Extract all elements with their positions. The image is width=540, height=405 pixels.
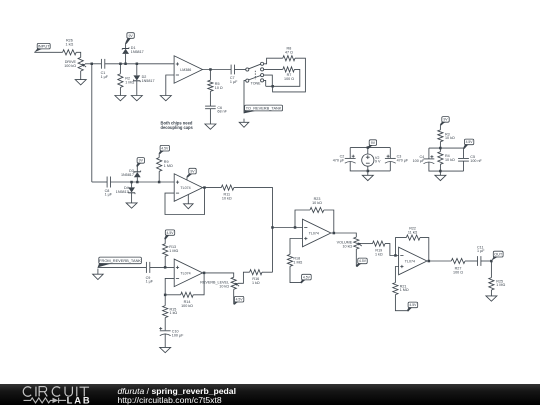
svg-text:1 MΩ: 1 MΩ: [169, 249, 178, 253]
wire: [164, 295, 166, 306]
label TONE: [251, 82, 262, 86]
resistor R2: [118, 74, 123, 88]
svg-text:100 kΩ: 100 kΩ: [64, 64, 76, 68]
svg-text:100 Ω: 100 Ω: [453, 270, 463, 274]
wire: [465, 260, 478, 262]
flag 4.5V at R21: [407, 302, 418, 311]
svg-text:100 Ω: 100 Ω: [284, 77, 294, 81]
resistor R25: [489, 278, 494, 290]
op-amp U1 LM386: [174, 56, 202, 83]
resistor R16: [250, 270, 262, 275]
svg-text:TO_REVERB_TANK: TO_REVERB_TANK: [246, 105, 282, 110]
wire: [92, 63, 101, 65]
wire: [80, 71, 82, 80]
svg-text:100 µF: 100 µF: [413, 159, 425, 163]
label R4: [445, 154, 455, 162]
wire: [119, 64, 121, 74]
capacitor C8: [107, 177, 110, 188]
wire: [481, 260, 492, 262]
node R2 tap: [119, 63, 122, 66]
resistor R23: [310, 207, 324, 212]
wire: [235, 69, 246, 71]
footer bar: [0, 384, 540, 405]
capacitor C6: [205, 106, 216, 109]
wire: [136, 64, 138, 76]
node U3 out: [333, 232, 336, 235]
svg-text:9 V: 9 V: [375, 160, 381, 164]
wire: [428, 148, 430, 159]
node drive-wiper: [91, 63, 94, 66]
svg-text:4.5V: 4.5V: [161, 147, 169, 151]
node fb U2B: [164, 294, 167, 297]
op-amp U2 TL074: [174, 174, 202, 202]
svg-text:1 kΩ: 1 kΩ: [66, 42, 74, 46]
node D1 tap: [124, 63, 127, 66]
wire: [367, 171, 369, 175]
svg-text:9V: 9V: [128, 34, 133, 38]
node U1 out: [209, 68, 212, 71]
flag 9V at U2: [187, 168, 197, 177]
label V2: [375, 156, 381, 164]
svg-text:4.5V: 4.5V: [359, 259, 367, 263]
label R19: [375, 249, 383, 257]
node R9 tap: [158, 181, 161, 184]
wire: [165, 294, 181, 296]
label REVERB_LEVEL: [200, 281, 229, 289]
label R21: [400, 284, 409, 292]
svg-text:1 MΩ: 1 MΩ: [293, 261, 302, 265]
wire: [238, 272, 250, 283]
svg-text:1N5817: 1N5817: [116, 190, 129, 194]
svg-text:4.5V: 4.5V: [466, 140, 474, 144]
wire: [264, 58, 283, 64]
capacitor C11: [478, 256, 481, 266]
wire: [266, 69, 300, 86]
flag 9V at V2: [367, 140, 376, 149]
wire: [385, 244, 399, 256]
ground: [184, 204, 194, 209]
wire: [136, 166, 138, 172]
node summing: [271, 226, 274, 229]
label R27: [453, 266, 463, 274]
wire: [429, 147, 464, 149]
label R9: [164, 160, 173, 168]
wire: [439, 142, 441, 148]
wire: [490, 290, 492, 296]
svg-text:LM386: LM386: [180, 68, 191, 72]
node tone net: [271, 85, 274, 88]
svg-text:1 MΩ: 1 MΩ: [125, 81, 134, 85]
op-amp U4 TL074: [399, 247, 427, 275]
label R14: [181, 300, 193, 308]
logo resistor-diode symbol: [24, 398, 67, 403]
wire: [244, 81, 246, 114]
wire: [131, 182, 133, 187]
label C9: [146, 276, 154, 284]
wire: [158, 171, 160, 182]
wire: [439, 125, 441, 130]
voltage source V2: [362, 154, 374, 166]
label D2: [142, 75, 155, 83]
wire: [427, 260, 451, 262]
node R13 tap: [164, 266, 167, 269]
wire: [439, 171, 441, 175]
wire: [203, 273, 234, 277]
ground: [435, 175, 446, 180]
node U2B out: [203, 272, 206, 275]
resistor R18: [287, 254, 292, 266]
resistor R26: [63, 50, 77, 55]
capacitor C7: [231, 65, 234, 75]
svg-text:4.5V: 4.5V: [236, 298, 244, 302]
note decoupling: [161, 121, 194, 131]
wire: [262, 271, 273, 273]
resistor R14: [181, 292, 194, 297]
resistor R7: [283, 67, 295, 72]
label C6: [217, 106, 227, 114]
ground: [205, 124, 216, 129]
wire: [150, 266, 174, 268]
wire: [136, 177, 138, 182]
resistor R11: [221, 185, 234, 190]
wire: [193, 273, 204, 295]
ground: [126, 203, 137, 208]
resistor R15: [163, 306, 168, 318]
ground: [239, 119, 249, 128]
label R18: [293, 257, 302, 265]
wire: [273, 227, 303, 229]
svg-text:10 Ω: 10 Ω: [215, 86, 223, 90]
wire: [209, 91, 211, 106]
wire: [273, 58, 306, 92]
wire: [367, 166, 369, 171]
wire: [34, 51, 62, 53]
resistor R8: [283, 56, 295, 61]
label R11: [222, 192, 232, 200]
resistor R19: [373, 241, 386, 246]
switch TONE pole B: [246, 76, 261, 83]
flag 4.5V at divider: [463, 139, 474, 149]
capacitor C1: [101, 59, 104, 69]
label D1: [131, 46, 144, 54]
ground: [93, 269, 104, 280]
svg-text:1 µF: 1 µF: [477, 249, 485, 253]
svg-text:LAB: LAB: [67, 395, 92, 405]
wire: [349, 148, 351, 159]
flag FROM_REVERB_TANK: [98, 257, 142, 267]
svg-text:68 nF: 68 nF: [217, 110, 227, 114]
svg-text:10 kΩ: 10 kΩ: [342, 245, 352, 249]
svg-text:OUT: OUT: [494, 252, 503, 257]
node U4 out: [428, 260, 431, 263]
svg-text:4.5V: 4.5V: [409, 303, 417, 307]
svg-text:10 kΩ: 10 kΩ: [219, 285, 229, 289]
wire: [136, 81, 138, 96]
capacitor C2 polarized: [345, 155, 356, 164]
node OUT: [490, 260, 493, 263]
capacitor C9: [146, 262, 149, 273]
label C3: [397, 154, 409, 162]
label R2: [125, 77, 134, 85]
svg-text:1 µF: 1 µF: [230, 80, 238, 84]
svg-text:47 Ω: 47 Ω: [285, 51, 293, 55]
wire: [395, 295, 407, 311]
svg-text:1N5817: 1N5817: [131, 50, 144, 54]
capacitor C4 polarized: [424, 155, 435, 164]
svg-text:11 kΩ: 11 kΩ: [408, 230, 418, 234]
ground: [362, 175, 373, 180]
flag INPUT: [34, 43, 50, 52]
diode D1: [122, 47, 129, 54]
power ground stub: [187, 195, 189, 204]
label C2: [333, 154, 345, 162]
label R16: [252, 277, 260, 285]
resistor R3: [438, 130, 443, 142]
node D2 tap: [136, 63, 139, 66]
ground: [131, 96, 142, 101]
svg-text:10 kΩ: 10 kΩ: [445, 136, 455, 140]
wire: [264, 75, 273, 86]
diode D2: [133, 75, 140, 82]
label R22: [408, 227, 418, 235]
label R7: [284, 73, 294, 81]
wire: [331, 233, 356, 237]
svg-text:1 MΩ: 1 MΩ: [496, 283, 505, 287]
wire: [119, 88, 121, 96]
label C11: [477, 245, 485, 253]
svg-text:9V: 9V: [371, 141, 376, 145]
svg-text:TL074: TL074: [180, 186, 190, 190]
svg-text:1 kΩ: 1 kΩ: [375, 252, 383, 256]
label C7: [230, 76, 238, 84]
svg-text:100 kΩ: 100 kΩ: [181, 304, 193, 308]
node U2 out: [203, 186, 206, 189]
svg-text:1N5817: 1N5817: [121, 173, 134, 177]
node 9V rail: [367, 146, 370, 149]
wire: [131, 193, 133, 203]
resistor R9: [157, 158, 162, 172]
logo CIRCUIT: [23, 387, 89, 397]
wire: [233, 289, 235, 304]
wire: [164, 318, 166, 331]
svg-text:1 µF: 1 µF: [105, 193, 113, 197]
flag 4.5V at R18: [300, 274, 311, 283]
node divider gnd: [439, 170, 442, 173]
capacitor C3 polarized: [385, 155, 396, 164]
op-amp U3 TL074: [303, 219, 331, 247]
switch TONE link: [254, 71, 256, 79]
wire: [290, 239, 303, 255]
wire: [203, 69, 232, 71]
wire: [389, 148, 391, 159]
label R26: [66, 39, 74, 47]
wire: [324, 210, 334, 233]
wire: [125, 54, 127, 64]
potentiometer VOLUME: [354, 237, 362, 249]
resistor R13: [163, 244, 168, 256]
svg-text:1 MΩ: 1 MΩ: [164, 164, 173, 168]
wire: [85, 63, 92, 65]
label R3: [445, 132, 455, 140]
wire: [439, 148, 441, 152]
svg-text:FROM_REVERB_TANK: FROM_REVERB_TANK: [99, 258, 141, 263]
ground: [115, 96, 126, 101]
svg-text:4.5V: 4.5V: [167, 231, 175, 235]
resistor R21: [393, 283, 398, 295]
wire: [234, 188, 273, 273]
wire: [367, 148, 369, 154]
label R15: [170, 307, 178, 315]
node 9V gnd: [367, 170, 370, 173]
svg-text:9V: 9V: [443, 118, 448, 122]
resistor R5: [208, 80, 213, 91]
label R23: [312, 197, 322, 205]
resistor R27: [451, 258, 465, 263]
wire: [125, 43, 127, 48]
wire: [92, 181, 107, 183]
label DRIVE: [64, 60, 76, 68]
wire: [164, 256, 166, 267]
flag OUT: [492, 251, 503, 260]
label C5: [470, 155, 482, 163]
wire: [395, 267, 398, 283]
wire: [355, 249, 357, 266]
svg-text:1 kΩ: 1 kΩ: [252, 281, 260, 285]
label C4: [413, 155, 425, 163]
capacitor C5: [458, 159, 469, 162]
switch TONE throws B: [261, 74, 264, 82]
svg-text:10 kΩ: 10 kΩ: [445, 158, 455, 162]
wire: [463, 161, 465, 171]
svg-text:470 µF: 470 µF: [333, 158, 345, 162]
wire feedback U2: [165, 188, 205, 215]
diode D4: [128, 187, 135, 194]
wire: [429, 162, 464, 171]
flag TO_REVERB_TANK: [244, 105, 283, 113]
svg-text:TL074: TL074: [405, 260, 415, 264]
label C8: [105, 189, 113, 197]
node R23 tap: [294, 226, 297, 229]
label D3: [121, 169, 134, 177]
svg-text:9V: 9V: [139, 159, 144, 163]
wire: [396, 238, 407, 256]
switch TONE pole A: [246, 64, 261, 71]
svg-text:9V: 9V: [190, 169, 195, 173]
svg-text:10 kΩ: 10 kΩ: [312, 201, 322, 205]
label D4: [116, 186, 129, 194]
wire: [264, 80, 266, 86]
wire: [158, 153, 160, 157]
wire: [350, 162, 390, 171]
flag 4.5V at REVERB_LEVEL: [233, 296, 243, 304]
potentiometer REVERB_LEVEL: [231, 277, 239, 289]
flag 9V at R3: [440, 117, 449, 126]
wire: [164, 334, 166, 348]
flag 4.5V at R13: [164, 230, 175, 240]
flag 4.5V at R9: [159, 145, 170, 154]
flag 9V at D1: [125, 33, 134, 44]
wire: [290, 266, 301, 282]
wire feedback U2B: [165, 278, 174, 294]
wire: [490, 261, 492, 278]
svg-text:1 MΩ: 1 MΩ: [400, 288, 409, 292]
wire: [439, 164, 441, 171]
label VOLUME: [337, 241, 353, 249]
node 4.5V rail: [439, 147, 442, 150]
flag 4.5V at VOLUME: [356, 258, 367, 267]
potentiometer DRIVE: [78, 57, 86, 71]
ground: [160, 96, 171, 101]
svg-text:100 µF: 100 µF: [172, 334, 184, 338]
ground: [75, 80, 86, 85]
diode D3: [134, 171, 141, 178]
wire: [209, 70, 211, 81]
resistor R22: [406, 235, 420, 240]
svg-text:4.5V: 4.5V: [303, 275, 311, 279]
wire: [111, 181, 175, 183]
power pin stub: [186, 177, 188, 181]
wire: [295, 210, 310, 228]
svg-text:decoupling caps: decoupling caps: [161, 125, 194, 130]
svg-text:10 kΩ: 10 kΩ: [222, 196, 232, 200]
svg-text:1N5817: 1N5817: [142, 79, 155, 83]
op-amp U2B TL074: [174, 259, 202, 287]
svg-text:TONE: TONE: [251, 82, 262, 86]
switch TONE throws A: [261, 62, 264, 71]
svg-text:100 nF: 100 nF: [470, 159, 482, 163]
wire: [164, 239, 166, 244]
label R8: [285, 47, 293, 55]
svg-text:INPUT: INPUT: [38, 44, 51, 49]
wire: [91, 64, 93, 182]
svg-text:TL074: TL074: [180, 272, 190, 276]
svg-text:1 µF: 1 µF: [101, 75, 109, 79]
wire: [98, 266, 147, 268]
wire: [420, 238, 429, 261]
wire: [209, 109, 211, 124]
label C1: [101, 71, 109, 79]
ground: [486, 296, 497, 301]
wire: [350, 147, 390, 149]
node D4 tap: [130, 181, 133, 184]
wire: [76, 52, 81, 57]
label R5: [215, 82, 223, 90]
label R13: [169, 245, 178, 253]
svg-text:http://circuitlab.com/c7t5xt8: http://circuitlab.com/c7t5xt8: [118, 395, 222, 405]
wire: [463, 148, 465, 158]
svg-text:TL074: TL074: [309, 232, 319, 236]
wire: [361, 243, 373, 245]
svg-text:1 kΩ: 1 kΩ: [170, 311, 178, 315]
svg-text:1 µF: 1 µF: [146, 280, 154, 284]
wire: [166, 75, 174, 96]
node D3 tap: [136, 181, 139, 184]
svg-text:470 µF: 470 µF: [397, 158, 409, 162]
label C10: [172, 330, 184, 338]
flag 9V at D3: [136, 158, 144, 167]
label R25: [496, 279, 505, 287]
capacitor C10 polarized: [159, 327, 170, 336]
wire: [203, 187, 222, 189]
wire: [264, 68, 283, 70]
wire: [389, 162, 391, 171]
ground: [160, 347, 171, 352]
resistor R4: [438, 152, 443, 165]
wire: [105, 63, 174, 65]
node fb U4: [394, 254, 397, 257]
